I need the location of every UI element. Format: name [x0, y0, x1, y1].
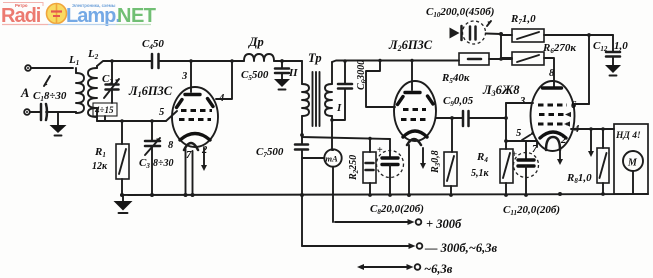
svg-text:С820,0(20б): С820,0(20б) [370, 203, 424, 216]
ground (antenna circuit) [50, 112, 67, 136]
tube V1 pin 2 arrow [201, 148, 207, 171]
svg-text:С10200,0(450б): С10200,0(450б) [426, 6, 494, 19]
motor M [623, 151, 643, 194]
svg-text:R81,0: R81,0 [566, 172, 592, 185]
svg-text:3: 3 [181, 71, 187, 82]
wire secondary bottom to meter [332, 149, 333, 151]
wire pin 4 to top rail [216, 59, 234, 99]
junction L2/C2 bottom [110, 59, 114, 63]
resistor R3 [444, 118, 457, 197]
svg-text:~6,3в: ~6,3в [424, 262, 453, 276]
tube V3 cathode [540, 132, 566, 138]
wire pin 3 to R4 node [506, 102, 533, 104]
heater line ~6,3V [357, 264, 420, 270]
svg-text:mA: mA [326, 154, 339, 164]
svg-text:С5500: С5500 [241, 69, 269, 82]
tube V2 grid feed wire [366, 59, 395, 107]
svg-text:R2250: R2250 [348, 155, 360, 181]
capacitor C1 trimmer plates [41, 76, 50, 120]
transformer Tr secondary [325, 62, 332, 150]
svg-text:8: 8 [549, 68, 555, 79]
svg-text:R4: R4 [476, 151, 488, 164]
bus junction dots [120, 192, 562, 197]
svg-text:+: + [512, 149, 517, 159]
resistor R1 [116, 121, 129, 195]
tube V3 top cap bar [543, 86, 562, 89]
electrolytic C11 [504, 139, 538, 197]
tube V1 heater pin wires [186, 149, 193, 195]
svg-text:5,1к: 5,1к [471, 168, 490, 179]
resistor R5 [459, 53, 512, 65]
svg-text:8: 8 [168, 140, 174, 151]
svg-text:С90,05: С90,05 [443, 95, 474, 108]
svg-text:С18÷30: С18÷30 [33, 90, 67, 103]
svg-text:Л26П3С: Л26П3С [388, 38, 433, 53]
junction R1 top [120, 119, 124, 123]
svg-text:С1120,0(20б): С1120,0(20б) [503, 204, 560, 217]
tube V2 envelope [394, 81, 436, 141]
wire C1 to L1 bottom [46, 111, 76, 113]
svg-text:Л36Ж8: Л36Ж8 [482, 83, 520, 98]
ground (C5) [274, 79, 290, 90]
svg-text:Тр: Тр [308, 51, 322, 65]
tube V3 pin 2 arrow [557, 150, 563, 165]
wire antenna top to L1 [31, 67, 73, 69]
tube V2 cathode [403, 131, 427, 137]
tube V1 cathode [180, 134, 210, 141]
svg-text:II: II [288, 67, 298, 79]
svg-text:R71,0: R71,0 [510, 13, 536, 26]
tube V2 anode [405, 59, 420, 93]
junction C7 top / cathode line [300, 133, 304, 137]
tube V2 heater [407, 139, 421, 145]
svg-text:2: 2 [560, 135, 567, 146]
resistor R8 [597, 129, 609, 196]
svg-text:7: 7 [186, 150, 192, 161]
svg-text:12к: 12к [92, 161, 108, 172]
wire pin 5 [166, 111, 177, 121]
wire secondary top to plate rail [332, 61, 459, 63]
supply line +300V [335, 219, 421, 225]
junction C3 top [150, 119, 154, 123]
svg-text:М: М [627, 158, 638, 169]
resistor R4 [500, 103, 513, 197]
svg-text:С3: С3 [139, 157, 150, 170]
resistor R2 [363, 137, 376, 197]
svg-text:L1: L1 [68, 54, 79, 67]
svg-text:Л16П3С: Л16П3С [128, 84, 173, 99]
ground (main bus) [114, 195, 133, 213]
pin 5 arrow [522, 132, 534, 140]
antenna terminal top [25, 65, 31, 71]
wire V2 anode node to C9 [436, 116, 463, 120]
capacitor C5 [275, 61, 289, 79]
electrolytic C10 [450, 21, 502, 44]
tube V1 anode pin 3 [185, 59, 200, 94]
value box 4÷15 [93, 103, 117, 121]
svg-text:1,0: 1,0 [614, 40, 628, 52]
svg-text:С450: С450 [142, 38, 164, 51]
svg-text:4÷15: 4÷15 [94, 105, 114, 115]
wire pin 4 to output [571, 127, 614, 157]
svg-text:— 300б,~6,3в: — 300б,~6,3в [424, 241, 497, 255]
ground bus wire [121, 194, 648, 195]
svg-text:R540к: R540к [441, 72, 470, 85]
resistor R6 [501, 52, 554, 88]
svg-text:+: + [377, 145, 383, 156]
svg-text:НД 4!: НД 4! [615, 131, 641, 141]
tube V2 heater pin wire [408, 145, 410, 195]
capacitor C3 [145, 121, 160, 195]
capacitor C7 [295, 135, 308, 246]
electrolytic C8 [377, 139, 404, 197]
svg-text:С7500: С7500 [256, 146, 284, 159]
tube V1 heater [184, 143, 198, 150]
svg-text:5: 5 [159, 107, 164, 118]
tube V2 pin arrow [420, 148, 426, 169]
svg-text:I: I [336, 102, 342, 114]
svg-text:R6270к: R6270к [542, 42, 576, 55]
svg-text:R30,8: R30,8 [430, 150, 442, 174]
svg-text:6: 6 [571, 100, 577, 111]
svg-text:3: 3 [519, 96, 525, 107]
svg-text:L2: L2 [87, 48, 99, 61]
wire antenna bottom to C1 [30, 111, 41, 113]
supply line -300V ~6,3V [302, 243, 422, 249]
capacitor C12 [606, 35, 620, 65]
tube V3 envelope [531, 81, 575, 151]
capacitor C4 [152, 54, 191, 68]
capacitor C6 [330, 59, 352, 122]
inductor L2 [88, 66, 97, 121]
tube V3 grid rows [538, 105, 571, 127]
tube V1 envelope [172, 87, 218, 147]
svg-text:5: 5 [516, 128, 521, 139]
svg-text:А: А [20, 86, 29, 100]
choke Dr [244, 54, 302, 61]
antenna terminal bottom [24, 109, 30, 115]
transformer Tr primary [302, 61, 309, 135]
svg-text:Др: Др [248, 35, 264, 49]
capacitor C2 trimmer [104, 61, 119, 103]
wire tank bottom bus [97, 120, 166, 122]
logo RadioLamp.NET [1, 3, 156, 28]
node B+ junction [499, 32, 503, 61]
junction choke / C5 [280, 59, 284, 63]
tube V3 heater [546, 137, 560, 150]
ground (C12) [605, 65, 621, 76]
resistor R7 [501, 29, 613, 42]
svg-text:С12: С12 [593, 40, 608, 53]
svg-text:8÷30: 8÷30 [153, 158, 174, 169]
svg-text:Radi: Radi [1, 5, 41, 27]
wire cathode network rail [302, 135, 390, 139]
inductor L1 [76, 68, 84, 113]
svg-text:R1: R1 [94, 146, 106, 159]
transformer Tr core [313, 72, 320, 126]
wire pin 6 to screen rail [574, 33, 591, 104]
wire top rail to choke [191, 60, 244, 62]
svg-text:+ 300б: + 300б [426, 217, 462, 231]
tube V1 grid rows [177, 99, 214, 120]
capacitor C9 [463, 111, 506, 126]
milliammeter mA [302, 149, 342, 222]
pickup unit НД-41 box [614, 124, 648, 194]
tube V2 grid rows [398, 96, 434, 120]
wire L2 top to C4 [97, 61, 152, 66]
svg-text:Lamp.: Lamp. [66, 5, 120, 27]
svg-text:NET: NET [117, 5, 156, 27]
